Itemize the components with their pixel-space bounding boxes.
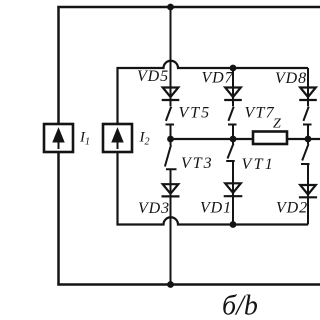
- svg-text:б/b: б/b: [222, 291, 258, 320]
- svg-text:VD8: VD8: [275, 70, 307, 87]
- svg-text:VT1: VT1: [242, 156, 276, 173]
- svg-text:VD7: VD7: [202, 70, 234, 87]
- svg-text:VT3: VT3: [181, 155, 214, 172]
- svg-text:VD2: VD2: [276, 200, 308, 217]
- svg-text:VD1: VD1: [200, 200, 232, 217]
- svg-text:I2: I2: [139, 130, 150, 148]
- svg-text:Z: Z: [273, 117, 281, 132]
- svg-text:VD5: VD5: [137, 68, 169, 85]
- svg-text:VT7: VT7: [245, 104, 275, 121]
- svg-text:I1: I1: [79, 130, 90, 148]
- svg-text:VD3: VD3: [138, 200, 170, 217]
- svg-text:VT5: VT5: [179, 104, 212, 121]
